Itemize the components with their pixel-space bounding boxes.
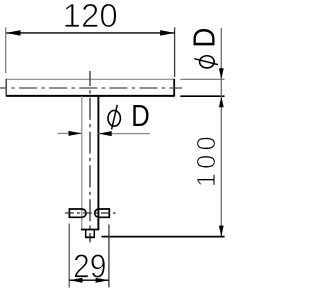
shaft bottom edge — [81, 229, 99, 231]
svg-text:29: 29 — [73, 248, 107, 285]
bar diameter phi symbol rotated — [194, 56, 218, 68]
dim 29 right extension line — [108, 225, 110, 288]
crossbar bottom edge — [6, 95, 174, 97]
shaft vertical centerline — [89, 71, 91, 242]
dim 120 right extension line — [174, 27, 176, 77]
bar diameter D label rotated — [186, 28, 221, 48]
svg-text:100: 100 — [193, 136, 221, 187]
right pin wing — [95, 209, 110, 217]
dim 120 left arrowhead — [6, 30, 20, 36]
shaft right edge — [97, 96, 99, 230]
svg-text:D: D — [186, 28, 221, 48]
bottom stub bottom edge — [85, 236, 95, 238]
dim 120 dimension line — [6, 32, 174, 34]
svg-text:120: 120 — [63, 0, 118, 34]
bar diameter upper arrowhead — [219, 68, 224, 79]
bar diameter top extension line — [180, 78, 224, 80]
shaft diameter phi symbol — [108, 105, 120, 130]
dim 29 right arrowhead — [96, 278, 109, 283]
bottom stub right edge — [93, 230, 95, 238]
bar diameter lower arrowhead — [219, 96, 224, 107]
dim 120 label — [63, 0, 118, 34]
shaft diameter right arrowhead — [98, 131, 111, 136]
dim 120 left extension line — [5, 27, 7, 73]
shaft diameter right arrow tail — [98, 133, 150, 135]
shaft left edge — [81, 96, 83, 230]
bar diameter bottom extension line — [180, 95, 224, 97]
dim 29 left arrowhead — [69, 278, 82, 283]
dim 29 left extension line — [68, 224, 70, 288]
shaft diameter left arrowhead — [69, 131, 82, 136]
dim 29 label — [73, 248, 107, 285]
dim 29 dimension line — [69, 279, 109, 281]
shaft diameter D label — [131, 99, 150, 133]
dim 100 bottom extension line — [102, 236, 225, 238]
shaft diameter left arrow tail — [58, 132, 82, 134]
pin horizontal centerline — [65, 212, 116, 214]
crossbar horizontal centerline — [0, 87, 182, 89]
bottom stub left edge — [85, 230, 87, 238]
crossbar right end — [173, 79, 175, 97]
crossbar top edge — [6, 78, 174, 80]
dim 100 bottom arrowhead — [219, 226, 224, 237]
dim 100 label rotated — [193, 136, 221, 187]
crossbar left end — [5, 79, 7, 97]
left pin wing — [69, 209, 86, 217]
dim 120 right arrowhead — [160, 30, 174, 36]
right vertical dimension line — [220, 28, 222, 237]
svg-text:D: D — [131, 99, 150, 133]
